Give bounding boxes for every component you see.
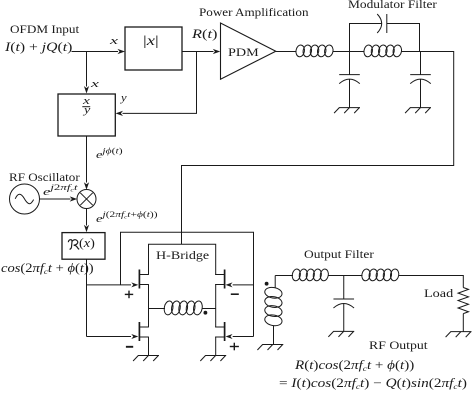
wire R(t) abs block to PDM [182, 51, 214, 53]
transistor Q2 top-right [224, 270, 226, 289]
wire feedback modulator to H-bridge [182, 51, 454, 244]
label y divider input [121, 94, 127, 105]
wire load to ground [462, 314, 464, 332]
transistor Q1 top-left [138, 270, 140, 289]
wire branch y down to divider [123, 52, 197, 114]
wire bypass cap to node B [387, 24, 420, 52]
oscillator sine [15, 194, 33, 204]
wire L5 to L6 node C [328, 275, 362, 277]
wire L1 to L2 node A [333, 51, 365, 53]
wire oscillator to mixer [40, 198, 71, 200]
capacitor C2 shunt at node A [349, 52, 351, 75]
capacitor C3 shunt at node B [420, 52, 422, 75]
label plus gate Q1 [125, 293, 133, 295]
transistor Q3 bottom-left [138, 322, 140, 341]
label RF output equation 1 [295, 359, 414, 372]
wire OFDM input to abs block [72, 51, 119, 53]
node phase dot primary [204, 311, 208, 315]
wire bypass up from node A [350, 24, 382, 52]
ground for load [451, 331, 472, 333]
wire Q3 source to ground [148, 337, 150, 356]
inductor L4 transformer secondary [274, 276, 276, 289]
ground for C2 [339, 107, 360, 109]
label OFDM Input [10, 23, 79, 35]
ground for L4 [262, 344, 283, 346]
wire H-bridge top rail [149, 244, 216, 274]
label PDM [228, 46, 259, 58]
label |x| in block U1 [143, 34, 159, 48]
ground for C3 [410, 107, 431, 109]
wire divider output [86, 136, 88, 183]
label fraction numerator x [83, 97, 90, 107]
ground for Q4 [205, 355, 226, 357]
block U3 divider [58, 94, 115, 136]
mixer X cross [80, 193, 92, 205]
wire L6 to load [399, 276, 464, 288]
transistor Q4 bottom-right [224, 322, 226, 341]
label e^j(2pifct+phi(t)) [96, 214, 158, 225]
wire gate A to Q1 [87, 284, 132, 286]
label plus gate Q4 [230, 346, 239, 348]
wire mixer to Re block [86, 209, 88, 226]
wire secondary to filter [275, 275, 293, 277]
label R(t) [192, 28, 217, 41]
label cos(2pifct+phi(t)) [1, 262, 94, 275]
ground for Q3 [138, 355, 159, 357]
wire Q4 source to ground [215, 337, 217, 356]
fraction bar in divider [82, 106, 90, 108]
label Modulator Filter [348, 0, 437, 10]
label RF Oscillator [9, 171, 80, 183]
inductor L5 output filter [291, 268, 301, 281]
wire gate C to Q2 [233, 284, 254, 286]
wire gate bus crossover [121, 232, 254, 336]
label H-Bridge [156, 249, 209, 261]
wire branch x down to divider [86, 52, 88, 87]
oscillator OSC1 circle [10, 184, 40, 214]
resistor R1 load [458, 288, 468, 314]
label minus gate Q2 [231, 293, 239, 295]
label Re(x) in block U5 [79, 237, 95, 250]
amplifier U2 PDM triangle [221, 23, 276, 79]
label e^jphi(t) [96, 150, 123, 161]
wire Re output down [86, 259, 88, 336]
inductor L6 output filter [361, 268, 371, 281]
capacitor C4 shunt output filter [343, 276, 345, 300]
wire L2 to corner [402, 51, 454, 53]
inductor L2 [363, 44, 373, 57]
wire PDM to L1 [276, 51, 297, 53]
block U1 absolute-value [125, 27, 182, 70]
inductor L1 [295, 44, 305, 57]
wire left leg [148, 285, 150, 328]
inductor L3 transformer primary [149, 308, 166, 310]
label RF output equation 2 [279, 377, 467, 390]
label minus gate Q3 [126, 346, 133, 348]
label Power Amplification [199, 6, 309, 18]
capacitor C1 series modulator filter [377, 14, 382, 33]
ground for C4 [333, 330, 354, 332]
node phase dot secondary [265, 282, 269, 286]
label fraktur R of Re(x) [68, 240, 79, 250]
block U5 real-part [62, 233, 105, 260]
label Output Filter [304, 248, 374, 260]
label Load [424, 287, 453, 299]
label fraction denominator y [84, 106, 90, 116]
label x divider input [91, 80, 99, 91]
label RF Output [369, 339, 428, 351]
mixer U4 multiplier circle [77, 190, 96, 209]
wire gate B to Q3 [87, 336, 132, 338]
wire gate D to Q4 [233, 336, 254, 338]
wire right leg [215, 285, 217, 328]
label x on wire [110, 37, 118, 48]
label e^j2pifct [43, 187, 78, 198]
label I(t)+jQ(t) [5, 41, 72, 54]
